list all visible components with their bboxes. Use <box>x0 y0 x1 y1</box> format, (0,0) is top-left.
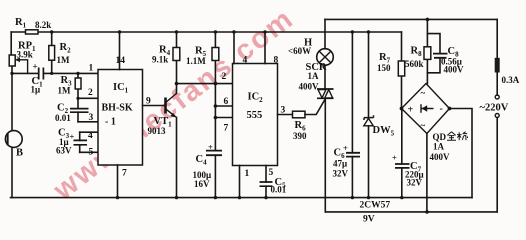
svg-text:2CW57: 2CW57 <box>360 201 391 211</box>
svg-text:6: 6 <box>224 97 229 107</box>
svg-text:~: ~ <box>421 88 426 98</box>
resistor R8 <box>405 18 431 84</box>
svg-text:47μ: 47μ <box>333 159 347 169</box>
microphone B <box>5 131 23 159</box>
bridge rectifier QD <box>400 84 468 163</box>
resistor R7 <box>377 32 405 109</box>
svg-text:0.3A: 0.3A <box>502 75 520 85</box>
svg-text:400V: 400V <box>444 65 465 75</box>
svg-text:+: + <box>70 132 75 142</box>
svg-text:32V: 32V <box>333 169 349 179</box>
pin 6 label <box>224 97 229 107</box>
ground rail <box>11 197 473 199</box>
svg-text:BH-SK: BH-SK <box>102 103 133 114</box>
wire IC1 pin4 <box>80 131 98 133</box>
svg-text:400V: 400V <box>430 152 451 162</box>
resistor R1 <box>15 17 51 34</box>
svg-text:8: 8 <box>274 56 279 66</box>
wire 555 pin8 <box>263 30 278 65</box>
wire IC1 pin3 <box>78 121 98 123</box>
capacitor C3 <box>56 128 87 156</box>
capacitor C7 <box>392 109 424 200</box>
svg-text:63V: 63V <box>56 146 72 156</box>
pin 5 <box>89 148 94 158</box>
svg-text:390: 390 <box>293 131 307 141</box>
svg-text:1A: 1A <box>433 142 445 152</box>
svg-text:~: ~ <box>421 121 426 131</box>
zener diode DW5 <box>364 30 395 199</box>
lamp H <box>288 19 333 65</box>
resistor R3 <box>58 72 82 109</box>
node: input wire to IC1 pin1 <box>10 72 98 75</box>
pin 4 <box>88 131 93 141</box>
op-amp IC1 BH-SK-1 box <box>98 70 143 166</box>
svg-text:+: + <box>33 62 38 72</box>
wire IC1 pin14 <box>116 30 126 69</box>
wire +9V top rail <box>11 31 401 33</box>
wire 555 pin3 <box>278 106 293 116</box>
wire IC1 pin2 <box>76 97 98 100</box>
resistor R5 <box>186 30 219 150</box>
svg-text:5: 5 <box>89 148 94 158</box>
terminal ~220V <box>480 95 509 212</box>
pin 7 label <box>224 124 229 134</box>
svg-text:400V: 400V <box>299 82 320 92</box>
svg-text:8.2k: 8.2k <box>35 20 51 30</box>
svg-text:4: 4 <box>243 56 248 66</box>
watermark www.elecfans.com <box>47 2 300 207</box>
svg-text:B: B <box>16 148 23 159</box>
pin 1 <box>89 64 94 74</box>
capacitor C1 <box>31 62 44 95</box>
svg-text:150: 150 <box>377 63 391 73</box>
transistor VT1 9013 <box>148 84 179 200</box>
label 2CW57 9V <box>360 201 391 225</box>
pin 2 label <box>222 72 227 82</box>
capacitor C4 <box>193 142 223 199</box>
svg-text:0.01: 0.01 <box>55 113 71 123</box>
svg-text:+: + <box>392 153 397 163</box>
svg-text:555: 555 <box>247 110 263 121</box>
capacitor C2 <box>55 103 89 124</box>
svg-text:9: 9 <box>146 97 151 107</box>
svg-text:- 1: - 1 <box>105 117 116 128</box>
svg-text:560k: 560k <box>405 59 424 69</box>
N line bottom <box>325 211 497 213</box>
svg-text:14: 14 <box>116 56 126 66</box>
wire 555 pin5 <box>264 166 273 200</box>
svg-text:7: 7 <box>224 124 229 134</box>
svg-text:~220V: ~220V <box>480 103 509 114</box>
pin 2 <box>88 88 93 98</box>
svg-text:1: 1 <box>89 64 94 74</box>
resistor R6 <box>293 99 326 141</box>
svg-text:-: - <box>440 104 443 115</box>
svg-text:2: 2 <box>222 72 227 82</box>
mains top rail <box>325 18 497 20</box>
thyristor SCR <box>299 62 334 212</box>
svg-text:0.01: 0.01 <box>271 185 287 195</box>
svg-text:1: 1 <box>245 169 250 179</box>
fuse 0.3A <box>495 19 520 95</box>
wire IC1 pin5 <box>80 151 98 153</box>
svg-text:1.1M: 1.1M <box>186 56 206 66</box>
svg-text:3.9k: 3.9k <box>17 50 33 60</box>
svg-text:3: 3 <box>89 113 94 123</box>
pin 3 <box>89 113 94 123</box>
wire VT1 collector to 555 pin2 <box>175 82 233 86</box>
wire 555 pin7 <box>214 116 233 120</box>
wire left branch vertical <box>10 32 13 198</box>
wire IC1 pin7 to ground <box>116 165 127 199</box>
svg-text:<60W: <60W <box>288 46 311 56</box>
svg-text:2: 2 <box>88 88 93 98</box>
svg-text:9V: 9V <box>363 215 375 225</box>
capacitor C5 <box>260 177 287 195</box>
capacitor C6 <box>333 30 361 199</box>
svg-text:1M: 1M <box>57 55 71 65</box>
wire IC1 pin9 <box>143 97 166 107</box>
svg-text:5: 5 <box>269 168 274 178</box>
wire 555 pin1 to ground <box>238 166 250 200</box>
svg-text:16V: 16V <box>194 179 210 189</box>
svg-text:9.1k: 9.1k <box>152 55 168 65</box>
svg-text:32V: 32V <box>407 178 423 188</box>
svg-text:7: 7 <box>122 169 127 179</box>
svg-text:QD: QD <box>433 132 447 142</box>
timer IC2 555 box <box>233 64 278 166</box>
wire 555 pin6 <box>214 104 233 108</box>
resistor R2 <box>49 30 71 75</box>
svg-text:1A: 1A <box>308 71 320 81</box>
svg-text:3: 3 <box>281 106 286 116</box>
svg-text:+: + <box>208 142 213 152</box>
wire 555 pin4 <box>232 30 247 65</box>
potentiometer RP1 <box>9 41 36 74</box>
svg-text:1M: 1M <box>58 86 72 96</box>
wire bridge AC bottom to N line <box>425 134 429 214</box>
resistor R4 <box>152 30 180 83</box>
capacitor C8 <box>427 34 464 75</box>
svg-text:4: 4 <box>88 131 93 141</box>
svg-text:1μ: 1μ <box>31 85 41 95</box>
svg-text:9013: 9013 <box>148 126 167 136</box>
wire bridge minus to right border <box>450 109 473 198</box>
svg-text:+: + <box>408 105 414 116</box>
